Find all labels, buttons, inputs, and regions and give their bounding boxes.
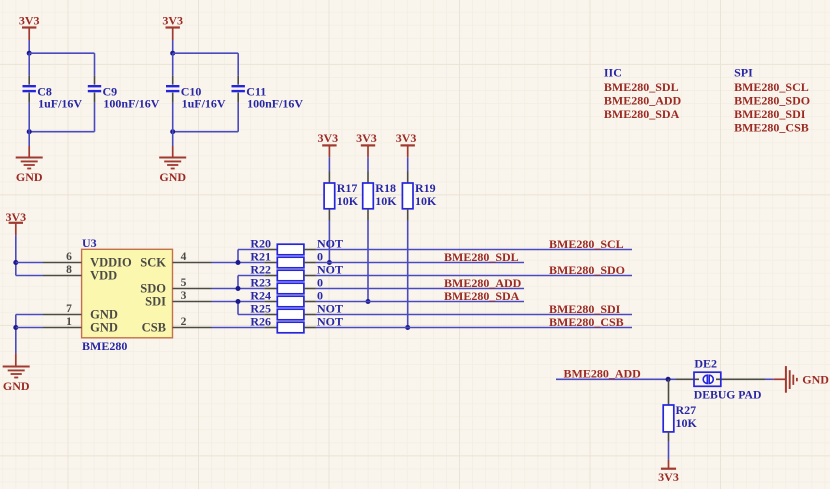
svg-text:3: 3 xyxy=(181,290,187,302)
svg-text:10K: 10K xyxy=(676,416,698,430)
svg-text:GND: GND xyxy=(802,373,829,387)
svg-text:GND: GND xyxy=(90,308,118,322)
svg-text:DE2: DE2 xyxy=(694,357,717,371)
svg-text:VDD: VDD xyxy=(90,269,117,283)
svg-text:GND: GND xyxy=(16,170,43,184)
svg-text:0: 0 xyxy=(317,276,323,290)
svg-text:0: 0 xyxy=(317,250,323,264)
svg-text:R24: R24 xyxy=(250,289,271,303)
svg-text:R19: R19 xyxy=(415,181,436,195)
svg-text:1uF/16V: 1uF/16V xyxy=(38,96,82,110)
svg-text:R20: R20 xyxy=(250,237,271,251)
svg-text:GND: GND xyxy=(90,321,118,335)
svg-text:3V3: 3V3 xyxy=(396,131,417,145)
svg-text:BME280_ADD: BME280_ADD xyxy=(604,94,682,108)
svg-text:GND: GND xyxy=(3,379,30,393)
svg-text:SDO: SDO xyxy=(140,282,166,296)
svg-text:BME280_SDL: BME280_SDL xyxy=(604,80,679,94)
svg-text:100nF/16V: 100nF/16V xyxy=(103,96,159,110)
svg-text:NOT: NOT xyxy=(317,237,343,251)
svg-text:CSB: CSB xyxy=(142,321,166,335)
svg-text:BME280: BME280 xyxy=(82,339,127,353)
svg-text:BME280_ADD: BME280_ADD xyxy=(564,367,642,381)
svg-text:BME280_SDA: BME280_SDA xyxy=(604,107,680,121)
svg-text:NOT: NOT xyxy=(317,302,343,316)
svg-text:SPI: SPI xyxy=(734,66,753,80)
svg-text:3V3: 3V3 xyxy=(658,470,679,484)
svg-text:BME280_SDA: BME280_SDA xyxy=(444,289,520,303)
svg-text:R25: R25 xyxy=(250,302,271,316)
svg-text:R23: R23 xyxy=(250,276,271,290)
svg-text:5: 5 xyxy=(181,277,187,289)
svg-text:R17: R17 xyxy=(337,181,358,195)
svg-text:U3: U3 xyxy=(82,236,97,250)
svg-text:4: 4 xyxy=(181,251,187,263)
svg-text:BME280_CSB: BME280_CSB xyxy=(734,121,809,135)
svg-text:1: 1 xyxy=(66,316,72,328)
svg-text:BME280_SDO: BME280_SDO xyxy=(734,94,810,108)
svg-text:NOT: NOT xyxy=(317,315,343,329)
svg-text:BME280_SCL: BME280_SCL xyxy=(549,237,624,251)
svg-text:SDI: SDI xyxy=(145,295,166,309)
svg-text:VDDIO: VDDIO xyxy=(90,256,132,270)
svg-text:IIC: IIC xyxy=(604,66,622,80)
svg-text:BME280_CSB: BME280_CSB xyxy=(549,315,624,329)
svg-text:BME280_SDI: BME280_SDI xyxy=(549,302,621,316)
svg-text:0: 0 xyxy=(317,289,323,303)
svg-text:3V3: 3V3 xyxy=(162,14,183,28)
svg-text:10K: 10K xyxy=(337,194,359,208)
svg-text:10K: 10K xyxy=(375,194,397,208)
svg-text:R18: R18 xyxy=(375,181,396,195)
svg-text:100nF/16V: 100nF/16V xyxy=(247,96,303,110)
svg-text:10K: 10K xyxy=(415,194,437,208)
svg-text:8: 8 xyxy=(66,264,72,276)
svg-text:R27: R27 xyxy=(676,403,697,417)
svg-text:DEBUG PAD: DEBUG PAD xyxy=(694,388,762,401)
svg-text:GND: GND xyxy=(159,170,186,184)
svg-text:BME280_SCL: BME280_SCL xyxy=(734,80,809,94)
svg-text:R26: R26 xyxy=(250,315,271,329)
svg-text:1uF/16V: 1uF/16V xyxy=(182,96,226,110)
svg-text:2: 2 xyxy=(181,316,187,328)
svg-text:7: 7 xyxy=(66,303,72,315)
svg-text:3V3: 3V3 xyxy=(356,131,377,145)
svg-text:3V3: 3V3 xyxy=(19,14,40,28)
svg-text:SCK: SCK xyxy=(140,256,166,270)
svg-text:BME280_SDO: BME280_SDO xyxy=(549,263,625,277)
svg-text:6: 6 xyxy=(66,251,72,263)
svg-text:NOT: NOT xyxy=(317,263,343,277)
svg-text:BME280_SDI: BME280_SDI xyxy=(734,107,806,121)
svg-text:R22: R22 xyxy=(250,263,271,277)
svg-text:R21: R21 xyxy=(250,250,271,264)
svg-text:BME280_ADD: BME280_ADD xyxy=(444,276,522,290)
svg-text:BME280_SDL: BME280_SDL xyxy=(444,250,519,264)
svg-text:3V3: 3V3 xyxy=(317,131,338,145)
